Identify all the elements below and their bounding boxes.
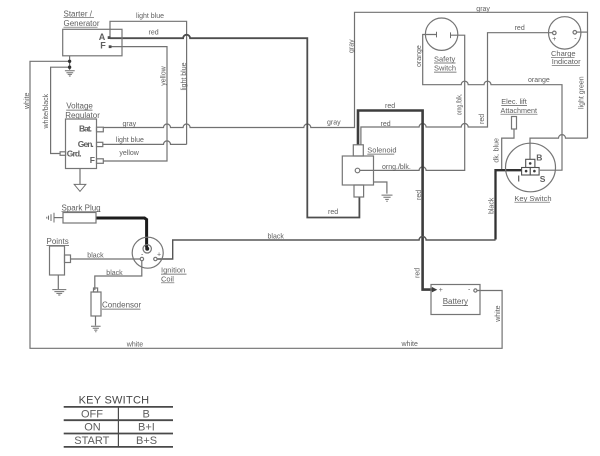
table horizontal rules xyxy=(64,407,173,447)
svg-text:red: red xyxy=(381,121,391,128)
key switch I contact dot xyxy=(525,170,528,173)
svg-text:B+S: B+S xyxy=(136,435,157,447)
charge indicator left terminal circle xyxy=(553,31,557,35)
svg-text:light blue: light blue xyxy=(136,13,164,20)
ignition coil center tower ring xyxy=(143,245,151,253)
key switch circle xyxy=(506,143,556,192)
voltage regulator Bat. terminal stub xyxy=(97,127,104,132)
svg-text:white: white xyxy=(495,305,502,322)
svg-text:white/black: white/black xyxy=(43,93,50,129)
ground below points xyxy=(52,290,66,295)
svg-text:Ignition: Ignition xyxy=(161,266,185,275)
svg-text:+: + xyxy=(157,251,161,258)
wire dk. blue from Elec. lift Attachment down to key switch I line xyxy=(502,129,514,170)
svg-text:Voltage: Voltage xyxy=(66,102,93,111)
svg-text:orange: orange xyxy=(416,45,423,67)
svg-text:orng./blk.: orng./blk. xyxy=(457,94,464,116)
wire stem from Voltage Regulator to ground xyxy=(79,169,81,185)
svg-text:Safety: Safety xyxy=(434,55,456,64)
svg-text:OFF: OFF xyxy=(81,408,103,420)
starter/generator F terminal dot xyxy=(109,45,112,48)
wire thick black from key switch I terminal down xyxy=(496,170,522,239)
ignition coil center terminal dot xyxy=(145,247,149,251)
starter/generator box xyxy=(63,29,122,56)
svg-text:B+I: B+I xyxy=(138,422,155,434)
svg-text:Key Switch: Key Switch xyxy=(514,194,551,203)
svg-text:B: B xyxy=(536,152,542,162)
svg-text:yellow: yellow xyxy=(160,65,167,85)
svg-text:red: red xyxy=(385,103,395,110)
wire orange from safety switch left terminal to key switch S (hops at x464.7,x487.5) xyxy=(423,35,562,171)
wire yellow from Starter/Generator F terminal down to Voltage Regulator F xyxy=(103,47,167,161)
wire white/black from ground junction down to Voltage Regulator Grd. xyxy=(51,67,70,153)
wire white from ground junction down left side and along bottom to battery negative xyxy=(30,61,502,348)
svg-text:red: red xyxy=(416,190,423,200)
solenoid top post xyxy=(353,145,363,156)
svg-text:light green: light green xyxy=(579,76,586,109)
svg-text:ON: ON xyxy=(84,422,101,434)
solenoid box xyxy=(342,156,373,185)
wire orng./blk. from safety switch right terminal down to solenoid terminal (hop at x422.6) xyxy=(360,35,465,170)
svg-text:red: red xyxy=(479,114,486,124)
voltage regulator box xyxy=(66,119,97,169)
svg-text:orange: orange xyxy=(528,77,550,84)
svg-text:B: B xyxy=(143,408,150,420)
key switch S contact dot xyxy=(533,170,536,173)
svg-text:Switch: Switch xyxy=(434,64,456,73)
charge indicator circle xyxy=(549,17,581,49)
svg-text:black: black xyxy=(489,197,496,214)
svg-text:+: + xyxy=(439,287,443,294)
svg-text:Solenoid: Solenoid xyxy=(367,146,396,155)
svg-text:START: START xyxy=(74,435,109,447)
svg-text:red: red xyxy=(415,268,422,278)
svg-text:gray: gray xyxy=(476,6,490,13)
svg-text:black: black xyxy=(87,253,104,260)
svg-text:-: - xyxy=(574,35,577,42)
svg-text:Indicator: Indicator xyxy=(552,57,581,66)
svg-text:white: white xyxy=(24,93,31,110)
svg-text:Bat.: Bat. xyxy=(79,124,92,134)
wire light blue from Voltage Regulator Gen. terminal (hop over yellow at x167) xyxy=(103,141,187,145)
svg-text:dk. blue: dk. blue xyxy=(494,138,501,163)
wire black from points to ignition coil negative terminal xyxy=(71,258,141,260)
svg-text:S: S xyxy=(540,174,546,184)
svg-text:orng./blk.: orng./blk. xyxy=(382,164,411,171)
svg-text:light blue: light blue xyxy=(181,62,188,90)
svg-text:Elec. lift: Elec. lift xyxy=(501,97,527,106)
wire black from ignition coil negative terminal down to condensor xyxy=(95,261,142,290)
safety switch circle xyxy=(425,18,457,50)
key switch B contact dot xyxy=(529,162,532,165)
key switch S contact square xyxy=(530,168,539,176)
charge indicator right terminal circle xyxy=(573,31,577,35)
safety switch left terminal tick xyxy=(436,32,438,38)
safety switch right terminal tick xyxy=(450,32,452,38)
ignition coil minus terminal circle xyxy=(140,257,143,260)
wire stem from spark plug to ground xyxy=(54,217,63,219)
svg-text:Battery: Battery xyxy=(443,297,468,306)
key switch I contact square xyxy=(522,168,531,176)
svg-text:black: black xyxy=(268,233,285,240)
table column divider xyxy=(117,407,119,447)
wire light blue from Starter/Generator A terminal up and over to right xyxy=(110,21,187,144)
svg-text:Spark Plug: Spark Plug xyxy=(62,203,101,212)
svg-text:Coil: Coil xyxy=(161,274,174,283)
ignition coil plus terminal circle xyxy=(154,257,157,260)
svg-text:gray: gray xyxy=(327,119,341,126)
svg-text:light blue: light blue xyxy=(116,137,144,144)
ground below condensor xyxy=(91,326,101,331)
points box xyxy=(50,246,65,275)
svg-text:Grd.: Grd. xyxy=(67,149,82,159)
voltage regulator Gen. terminal stub xyxy=(97,142,103,146)
wire stem from condensor to ground xyxy=(95,316,97,326)
svg-text:I: I xyxy=(518,173,520,183)
svg-text:gray: gray xyxy=(123,121,137,128)
voltage regulator F terminal stub xyxy=(97,159,104,164)
battery box xyxy=(431,285,480,315)
ground below voltage regulator (triangle) xyxy=(74,184,86,191)
svg-text:Points: Points xyxy=(47,237,69,246)
wire from solenoid right side to ground xyxy=(374,182,387,194)
svg-text:KEY SWITCH: KEY SWITCH xyxy=(79,395,150,407)
battery negative terminal circle xyxy=(474,289,477,292)
svg-text:F: F xyxy=(100,41,106,51)
svg-text:Starter /: Starter / xyxy=(64,9,93,18)
ground below starter/generator xyxy=(65,71,75,76)
svg-text:Attachment: Attachment xyxy=(501,106,538,115)
elec lift attachment stub xyxy=(512,117,517,130)
wire thick black spark plug cable to ignition coil center xyxy=(96,218,147,248)
svg-text:white: white xyxy=(401,341,418,348)
wire red medium from Starter/Generator A around to solenoid bottom post (hop at x186.6) xyxy=(110,35,359,218)
wire thin red from solenoid post to charge indicator (hops at x422.6,x464.7) xyxy=(361,33,553,145)
wire gray from Voltage Regulator Bat. terminal across top to light green node (hops at x167,x186.6,x307) xyxy=(103,12,587,138)
wire black from key switch black wire to ignition coil + terminal (hop at x422.6) xyxy=(157,237,496,259)
svg-text:-: - xyxy=(468,287,471,294)
junction node dot lower (white/black wire) xyxy=(68,66,71,69)
svg-text:black: black xyxy=(106,270,123,277)
condensor body xyxy=(91,292,101,316)
spark plug body xyxy=(63,213,96,224)
ignition coil circle xyxy=(132,237,163,268)
arrowhead at battery positive xyxy=(432,287,438,293)
svg-text:yellow: yellow xyxy=(119,150,139,157)
starter/generator A terminal dot xyxy=(108,36,111,39)
svg-text:white: white xyxy=(126,342,143,349)
svg-text:red: red xyxy=(149,30,159,37)
ground below solenoid xyxy=(382,195,393,201)
points terminal stub xyxy=(65,255,71,263)
wire ground stem below Starter/Generator xyxy=(69,56,71,70)
svg-text:Condensor: Condensor xyxy=(102,301,141,310)
svg-text:Generator: Generator xyxy=(64,19,100,28)
svg-text:F: F xyxy=(90,155,95,165)
wire thick red battery cable from solenoid top post to battery positive xyxy=(358,111,433,290)
svg-text:red: red xyxy=(515,25,525,32)
solenoid bottom post xyxy=(354,185,364,197)
svg-text:Gen.: Gen. xyxy=(78,139,94,149)
svg-text:gray: gray xyxy=(349,39,356,53)
voltage regulator Grd. terminal stub xyxy=(60,152,66,156)
condensor neck xyxy=(94,288,98,292)
wire from charge indicator right terminal to light green vertical xyxy=(577,31,588,33)
svg-text:+: + xyxy=(552,36,556,43)
wire stem from points box to ground xyxy=(57,275,59,289)
key switch B contact square xyxy=(526,159,535,167)
ground left of spark plug xyxy=(47,213,54,223)
svg-text:red: red xyxy=(328,209,338,216)
junction node dot upper (white wire) xyxy=(68,60,71,63)
wire from key switch B terminal up and right to light green vertical (hop over orange at x562) xyxy=(530,135,588,160)
solenoid terminal circle xyxy=(355,168,360,173)
